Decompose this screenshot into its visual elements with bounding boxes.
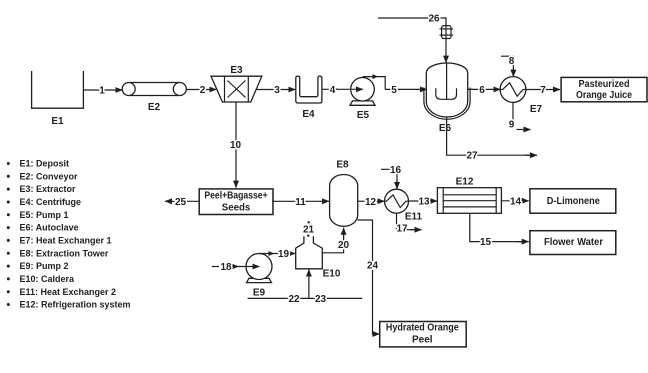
svg-text:Peel: Peel: [412, 334, 433, 345]
svg-text:3: 3: [274, 85, 280, 96]
wire stream 24: [358, 220, 374, 334]
wire stream 17: [397, 213, 415, 230]
wire stream 12: [358, 200, 385, 202]
wire stream 1: [83, 89, 122, 91]
svg-text:E2: Conveyor: E2: Conveyor: [20, 171, 79, 181]
svg-text:E7: Heat Exchanger 1: E7: Heat Exchanger 1: [20, 236, 112, 246]
svg-text:18: 18: [220, 262, 232, 273]
box D-Limonene: [530, 189, 616, 213]
extractor E3: [211, 76, 262, 102]
svg-text:E8: Extraction Tower: E8: Extraction Tower: [20, 248, 109, 258]
wire stream 11: [272, 200, 329, 202]
svg-text:27: 27: [466, 151, 478, 162]
svg-text:10: 10: [230, 140, 242, 151]
svg-text:E10: E10: [323, 269, 341, 280]
svg-text:21: 21: [303, 225, 315, 236]
svg-text:E2: E2: [148, 102, 161, 113]
svg-text:Peel+Bagasse+: Peel+Bagasse+: [204, 190, 267, 201]
svg-text:D-Limonene: D-Limonene: [547, 196, 600, 207]
svg-text:24: 24: [367, 261, 379, 272]
caldera E10: [296, 236, 323, 269]
svg-text:Hydrated Orange: Hydrated Orange: [386, 323, 459, 334]
box Pasteurized Orange Juice: [561, 77, 647, 101]
conveyor E2: [122, 83, 186, 96]
wire stream 7: [526, 89, 560, 91]
svg-text:E1: E1: [51, 116, 64, 127]
svg-text:1: 1: [99, 86, 105, 97]
wire E5 discharge: [363, 77, 386, 90]
pump E5: [350, 78, 375, 106]
refrigeration system E12: [437, 188, 501, 214]
valve V1: [440, 26, 454, 39]
svg-text:E4: Centrifuge: E4: Centrifuge: [20, 197, 82, 207]
wire streams 22 23: [248, 297, 363, 299]
node 21 smoke: [308, 221, 310, 223]
svg-text:15: 15: [480, 237, 492, 248]
svg-text:E8: E8: [336, 160, 349, 171]
wire stream 2: [186, 89, 216, 91]
heat exchanger E11: [385, 189, 409, 213]
svg-text:E9: Pump 2: E9: Pump 2: [20, 261, 69, 271]
wire stream 4 into E5: [338, 88, 363, 90]
svg-text:14: 14: [510, 196, 522, 207]
wire stream 15: [470, 213, 522, 241]
svg-text:E3: Extractor: E3: Extractor: [20, 184, 77, 194]
svg-text:17: 17: [396, 224, 408, 235]
svg-text:E1: Deposit: E1: Deposit: [20, 159, 70, 169]
wire stream 6: [468, 88, 501, 90]
wire stream 18: [212, 266, 219, 268]
wire stream 19: [259, 253, 295, 255]
svg-text:Pasteurized: Pasteurized: [579, 79, 630, 90]
centrifuge E4: [296, 76, 322, 103]
svg-text:11: 11: [295, 197, 306, 208]
wire stream 14: [501, 200, 528, 202]
svg-text:E9: E9: [253, 288, 266, 299]
svg-text:5: 5: [391, 85, 397, 96]
legend: [7, 159, 131, 310]
svg-text:9: 9: [509, 120, 515, 131]
svg-text:22: 22: [288, 294, 300, 305]
svg-text:20: 20: [338, 240, 350, 251]
svg-text:8: 8: [509, 56, 515, 67]
svg-text:26: 26: [428, 14, 440, 25]
svg-text:E4: E4: [302, 109, 315, 120]
svg-text:Orange Juice: Orange Juice: [576, 90, 632, 101]
svg-text:E10: Caldera: E10: Caldera: [20, 274, 76, 284]
svg-text:E7: E7: [530, 104, 543, 115]
svg-text:E11: Heat Exchanger 2: E11: Heat Exchanger 2: [20, 287, 117, 297]
svg-text:Flower Water: Flower Water: [544, 237, 603, 248]
wire stream 25: [165, 200, 200, 202]
svg-text:Seeds: Seeds: [222, 203, 251, 214]
wire stream 26: [378, 18, 446, 39]
svg-text:E12: Refrigeration system: E12: Refrigeration system: [20, 300, 131, 310]
svg-text:12: 12: [365, 197, 377, 208]
box Peel+Bagasse+Seeds: [199, 189, 273, 215]
wire valve to E6: [445, 39, 447, 63]
wire stream 5: [385, 88, 427, 90]
svg-text:E12: E12: [456, 177, 474, 188]
wire stream 10: [235, 102, 237, 188]
box Flower Water: [530, 231, 616, 255]
svg-text:6: 6: [479, 85, 485, 96]
svg-text:4: 4: [330, 85, 336, 96]
wire stream 3: [256, 89, 296, 91]
wire stream 27: [447, 117, 531, 155]
svg-text:E6: E6: [439, 123, 452, 134]
wire stream 9: [512, 102, 514, 121]
heat exchanger E7: [500, 77, 526, 103]
wire stream 8: [501, 56, 513, 71]
tank E1: [32, 71, 84, 108]
svg-text:16: 16: [390, 165, 402, 176]
svg-text:7: 7: [540, 85, 546, 96]
svg-text:E6: Autoclave: E6: Autoclave: [20, 223, 79, 233]
svg-text:19: 19: [278, 249, 290, 260]
svg-text:13: 13: [418, 197, 430, 208]
wire stream 18 into E9: [239, 266, 260, 268]
wire stream 4: [322, 88, 338, 90]
wire stream 13: [409, 200, 437, 202]
box Hydrated Orange Peel: [380, 322, 467, 347]
svg-text:2: 2: [200, 85, 206, 96]
wire stream 16: [381, 169, 397, 183]
tower E8: [330, 175, 358, 227]
pump E9: [246, 254, 272, 283]
svg-text:E5: Pump 1: E5: Pump 1: [20, 210, 69, 220]
svg-text:25: 25: [175, 197, 187, 208]
svg-text:E11: E11: [405, 212, 423, 223]
wire stream 20: [322, 235, 344, 253]
svg-text:E5: E5: [357, 110, 370, 121]
autoclave E6: [424, 63, 470, 119]
svg-text:23: 23: [315, 294, 327, 305]
svg-text:E3: E3: [230, 65, 243, 76]
